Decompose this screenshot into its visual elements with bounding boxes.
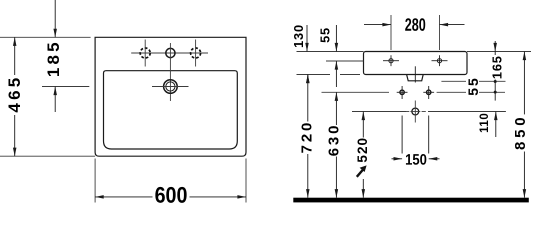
extension line: basin bottom level left xyxy=(297,74,361,76)
extension line: faucet hole level (left) xyxy=(42,86,89,88)
right mounting hole xyxy=(423,86,434,99)
svg-text:630: 630 xyxy=(326,123,343,156)
extension line: mounting holes level xyxy=(322,91,506,93)
dimension 720 (vertical) xyxy=(299,75,316,198)
dimension 520 (vertical with break symbol) xyxy=(355,112,370,198)
dimension 55 right (between dots) xyxy=(465,76,497,96)
left tap hole cross (front) xyxy=(383,55,399,66)
svg-text:600: 600 xyxy=(155,183,188,207)
main faucet hole (double circle) xyxy=(152,80,189,94)
floor line (thick) xyxy=(293,198,529,203)
svg-text:55: 55 xyxy=(317,27,332,43)
extension line: basin top level right xyxy=(467,51,531,53)
extension line: basin top level left xyxy=(297,51,364,53)
middle tap hole (solid circle) xyxy=(166,43,175,101)
svg-text:850: 850 xyxy=(512,114,529,150)
outer ceramic rim (top view) xyxy=(95,37,246,156)
svg-text:520: 520 xyxy=(355,137,370,163)
dimension 465 (vertical, inside arrows) xyxy=(5,37,24,156)
inner basin rim (top view) xyxy=(104,71,238,149)
dimension 165 (vertical, outside arrow top + dot) xyxy=(490,41,505,101)
left mounting hole xyxy=(397,86,408,99)
svg-text:465: 465 xyxy=(5,75,24,113)
extension line: bottom edge extended left xyxy=(0,155,95,157)
svg-text:150: 150 xyxy=(405,152,427,169)
svg-text:55: 55 xyxy=(465,76,481,96)
dimension 110 (vertical, arrow up to drain level) xyxy=(479,112,498,138)
right tap hole (dashed circle) xyxy=(191,40,201,67)
dimension 600 (horizontal, inside arrows) xyxy=(95,183,246,207)
drain centerline inside basin xyxy=(414,66,416,82)
dimension 150 (horizontal, outside arrows) xyxy=(392,152,440,169)
svg-text:165: 165 xyxy=(490,55,505,79)
extension line 280 left vertical xyxy=(390,15,392,50)
extension line: drain level left xyxy=(352,111,406,113)
tap hole centerline (horizontal) xyxy=(131,52,208,54)
svg-text:720: 720 xyxy=(299,120,316,153)
dimension 630 (vertical) xyxy=(326,92,343,197)
extension line: drain level right xyxy=(428,111,506,113)
dimension 280 (horizontal, outside arrows) xyxy=(364,16,465,36)
extension line: 600 right xyxy=(245,159,247,203)
extension line: top edge (left) xyxy=(0,36,91,38)
left tap hole (dashed circle) xyxy=(140,40,150,67)
supply zone line left (150) xyxy=(401,116,403,154)
drain hole circle (front) xyxy=(405,101,426,123)
dimension 130 (vertical, outside arrows, text top) xyxy=(291,24,310,83)
supply zone line right (150) xyxy=(428,116,430,154)
drain recess trapezoid under basin xyxy=(407,75,424,81)
extension line: flange bottom level right xyxy=(441,80,505,82)
svg-text:130: 130 xyxy=(291,24,306,48)
extension line: 600 left xyxy=(94,159,96,203)
extension line 280 right vertical xyxy=(439,15,441,50)
svg-text:110: 110 xyxy=(479,113,491,133)
dimension 850 (vertical, inside arrows) xyxy=(512,52,529,198)
dimension 55 top-left (vertical, outside arrows, text top) xyxy=(317,25,338,87)
dimension 185 (vertical, outside arrows) xyxy=(44,0,63,112)
extension line: tap hole level left xyxy=(326,60,364,62)
svg-text:280: 280 xyxy=(405,16,426,36)
basin body (front view) xyxy=(364,52,468,75)
svg-text:185: 185 xyxy=(44,39,63,77)
right tap hole cross (front) xyxy=(432,55,448,66)
